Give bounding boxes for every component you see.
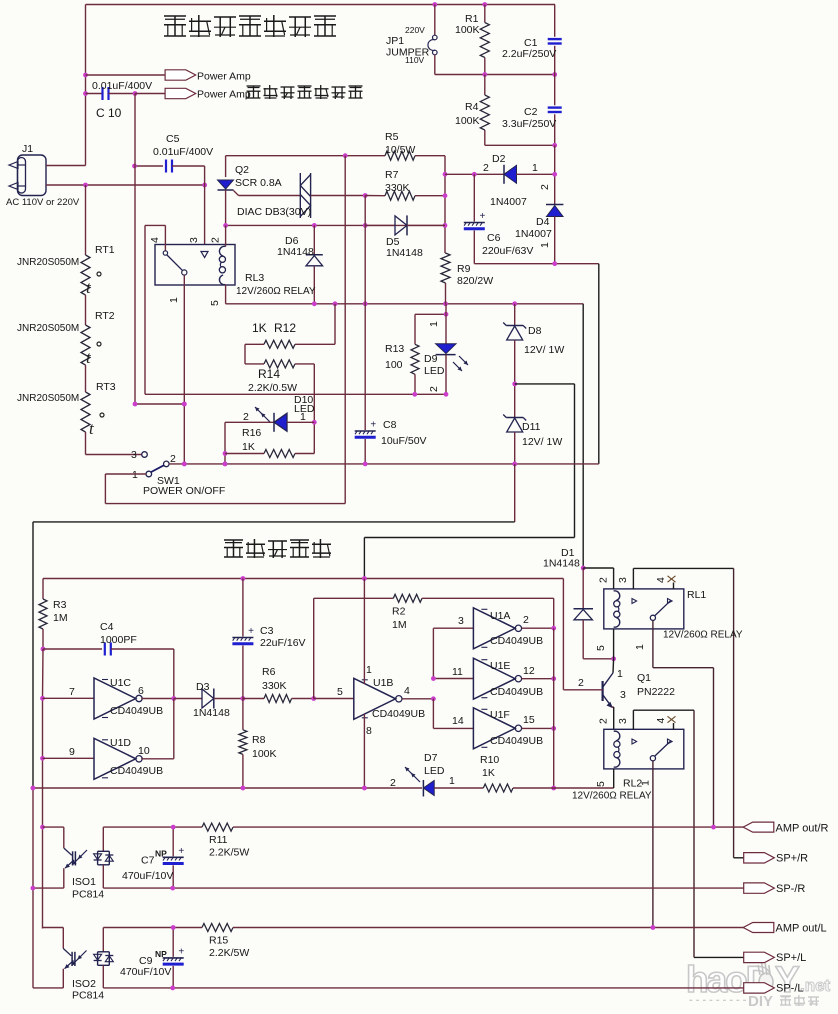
optocoupler ISO1 phototransistor bbox=[64, 827, 87, 888]
svg-text:RT2: RT2 bbox=[95, 310, 115, 322]
svg-text:R3: R3 bbox=[53, 599, 67, 611]
rail y304 bbox=[226, 301, 584, 306]
svg-text:3.3uF/250V: 3.3uF/250V bbox=[502, 118, 556, 130]
rail y788 bbox=[31, 786, 423, 791]
connector Power Amp 1 bbox=[165, 70, 251, 83]
wire SW1 pin2 row bbox=[169, 462, 599, 467]
svg-text:12: 12 bbox=[523, 665, 535, 677]
wire J1 top bbox=[46, 165, 86, 167]
svg-text:330K: 330K bbox=[262, 680, 287, 692]
svg-text:1K: 1K bbox=[252, 321, 267, 335]
svg-text:D7: D7 bbox=[424, 752, 438, 764]
svg-text:RL3: RL3 bbox=[245, 272, 264, 284]
svg-text:C2: C2 bbox=[524, 106, 538, 118]
relay RL3 pin1 wire bbox=[182, 275, 187, 466]
relay RL3 pin2 lead bbox=[210, 225, 226, 246]
SCR Q2 bbox=[218, 156, 282, 226]
svg-text:22uF/16V: 22uF/16V bbox=[260, 637, 306, 649]
svg-text:1: 1 bbox=[539, 242, 551, 248]
wire right column x599 bbox=[598, 264, 600, 464]
connector SP+/L bbox=[694, 952, 806, 964]
wire R7 right bbox=[415, 195, 445, 197]
svg-text:2: 2 bbox=[483, 162, 489, 174]
svg-text:PC814: PC814 bbox=[72, 990, 104, 1002]
svg-text:R14: R14 bbox=[258, 367, 280, 381]
capacitor C8 bbox=[355, 225, 427, 464]
svg-text:3: 3 bbox=[617, 718, 629, 724]
svg-text:U1A: U1A bbox=[490, 610, 510, 622]
svg-text:D2: D2 bbox=[492, 153, 506, 165]
wire D8-D11 to rail bbox=[364, 384, 574, 579]
svg-text:1: 1 bbox=[640, 780, 652, 786]
connector AMP out/L bbox=[743, 923, 826, 935]
relay RL1 contact arm bbox=[650, 601, 670, 621]
capacitor C3 bbox=[232, 579, 305, 699]
svg-text:+: + bbox=[370, 420, 376, 431]
svg-text:JNR20S050M: JNR20S050M bbox=[17, 323, 79, 334]
svg-text:3: 3 bbox=[620, 689, 626, 701]
svg-text:2: 2 bbox=[390, 777, 396, 789]
svg-text:R11: R11 bbox=[209, 834, 228, 846]
svg-text:4: 4 bbox=[149, 237, 161, 243]
svg-text:3: 3 bbox=[617, 577, 629, 583]
svg-text:R15: R15 bbox=[209, 935, 228, 947]
svg-text:+: + bbox=[178, 846, 184, 857]
resistor R5 bbox=[385, 131, 415, 160]
wire C6 bottom row bbox=[474, 261, 599, 266]
relay RL1 box bbox=[604, 589, 684, 629]
relay RL3 contact bbox=[163, 251, 187, 275]
svg-text:9: 9 bbox=[69, 746, 75, 758]
wire to lower section bbox=[33, 464, 515, 522]
wire PowerAmp2 bbox=[135, 93, 166, 95]
svg-text:RT1: RT1 bbox=[95, 244, 115, 256]
svg-text:CD4049UB: CD4049UB bbox=[490, 686, 543, 698]
svg-text:R2: R2 bbox=[392, 606, 406, 618]
wire x345 column bbox=[344, 156, 346, 504]
wire C2 bottom bbox=[552, 145, 557, 176]
svg-text:C6: C6 bbox=[487, 232, 501, 244]
svg-text:2: 2 bbox=[428, 386, 440, 392]
svg-text:RL1: RL1 bbox=[687, 589, 706, 601]
svg-text:1N4148: 1N4148 bbox=[193, 707, 230, 719]
wire DIAC to R7 bbox=[365, 195, 385, 197]
svg-text:D11: D11 bbox=[522, 421, 541, 433]
connector SP-/R bbox=[744, 883, 806, 895]
svg-text:C3: C3 bbox=[260, 625, 274, 637]
svg-text:12V/260Ω RELAY: 12V/260Ω RELAY bbox=[663, 630, 743, 641]
resistor R12 row bbox=[245, 304, 335, 349]
svg-text:1: 1 bbox=[366, 664, 372, 676]
svg-text:PN2222: PN2222 bbox=[637, 686, 675, 698]
svg-text:5: 5 bbox=[595, 781, 607, 787]
svg-text:SP-/R: SP-/R bbox=[776, 883, 805, 895]
svg-text:R13: R13 bbox=[385, 343, 404, 355]
svg-text:0.01uF/400V: 0.01uF/400V bbox=[92, 80, 152, 92]
resistor R13 bbox=[385, 304, 448, 395]
svg-text:1: 1 bbox=[634, 644, 646, 650]
svg-text:220V: 220V bbox=[405, 25, 425, 35]
svg-text:12V/260Ω RELAY: 12V/260Ω RELAY bbox=[572, 791, 652, 802]
wire J1 bottom bbox=[46, 183, 207, 188]
svg-text:1N4148: 1N4148 bbox=[277, 246, 314, 258]
svg-text:LED: LED bbox=[294, 403, 315, 415]
svg-text:1N4148: 1N4148 bbox=[386, 247, 423, 259]
capacitor C5 bbox=[135, 133, 214, 173]
svg-text:D8: D8 bbox=[528, 325, 542, 337]
resistor R8 bbox=[239, 699, 277, 789]
connector J1 bbox=[6, 143, 80, 208]
relay RL2 coil bbox=[614, 731, 620, 767]
relay RL3 labels bbox=[168, 272, 316, 306]
svg-text:1000PF: 1000PF bbox=[100, 634, 137, 646]
wire D5 row bbox=[223, 223, 445, 228]
wire relay pin4 column bbox=[144, 225, 146, 394]
labels ISO2 bbox=[72, 978, 104, 1002]
diode D5 bbox=[365, 215, 445, 259]
wire AMPoutR row bbox=[43, 826, 203, 828]
relay RL3 pin5 wire bbox=[225, 285, 227, 304]
svg-text:2: 2 bbox=[523, 614, 529, 626]
resistor R3 bbox=[39, 579, 68, 652]
svg-text:1N4148: 1N4148 bbox=[543, 558, 580, 570]
svg-text:0.01uF/400V: 0.01uF/400V bbox=[153, 146, 213, 158]
svg-text:U1F: U1F bbox=[490, 709, 510, 721]
svg-text:U1C: U1C bbox=[110, 677, 131, 689]
svg-text:U1E: U1E bbox=[490, 660, 510, 672]
svg-text:4: 4 bbox=[655, 577, 667, 583]
svg-text:5: 5 bbox=[337, 686, 343, 698]
diac DB3 bbox=[237, 173, 311, 218]
zener D8 bbox=[503, 304, 564, 384]
svg-text:2: 2 bbox=[539, 184, 551, 190]
svg-text:RT3: RT3 bbox=[96, 381, 116, 393]
diode D3 bbox=[174, 681, 243, 719]
svg-text:- - - - - - - - -: - - - - - - - - - bbox=[689, 994, 747, 1006]
wire x314 down bbox=[312, 364, 317, 454]
thermistor RT3 bbox=[17, 365, 116, 438]
svg-text:2: 2 bbox=[210, 237, 222, 243]
svg-text:2: 2 bbox=[578, 677, 584, 689]
svg-text:100K: 100K bbox=[455, 24, 480, 36]
connector SP-/L bbox=[744, 983, 804, 995]
wire SCR gate to DIAC bbox=[239, 195, 301, 197]
relay RL1 labels bbox=[595, 589, 743, 651]
svg-text:1N4007: 1N4007 bbox=[490, 196, 527, 208]
resistor R6 bbox=[243, 666, 314, 703]
relay RL2 pin5 bbox=[613, 769, 615, 788]
svg-text:AC 110V or 220V: AC 110V or 220V bbox=[6, 197, 80, 208]
svg-text:D9: D9 bbox=[424, 353, 438, 365]
resistor R15 bbox=[202, 924, 249, 960]
wire RT3 to SW1-3 bbox=[86, 432, 142, 455]
svg-text:12V/ 1W: 12V/ 1W bbox=[522, 436, 562, 448]
svg-text:1: 1 bbox=[428, 321, 440, 327]
wire R3 column bbox=[40, 649, 45, 928]
svg-text:Power Amp: Power Amp bbox=[197, 71, 251, 83]
svg-text:R16: R16 bbox=[242, 427, 261, 439]
switch SW1 bbox=[131, 449, 225, 497]
inverter U1D bbox=[43, 699, 174, 780]
svg-text:CD4049UB: CD4049UB bbox=[490, 635, 543, 647]
relay RL2 contact arm bbox=[650, 741, 670, 761]
rail y578 bbox=[43, 576, 563, 581]
LED D7 bbox=[390, 752, 455, 797]
capacitor C6 bbox=[464, 174, 534, 263]
relay RL1 pin2 bbox=[583, 568, 613, 589]
inverter U1A bbox=[433, 608, 556, 679]
svg-text:POWER ON/OFF: POWER ON/OFF bbox=[143, 485, 225, 497]
svg-text:CD4049UB: CD4049UB bbox=[490, 735, 543, 747]
diode D6 bbox=[277, 225, 323, 303]
svg-text:2.2K/5W: 2.2K/5W bbox=[209, 847, 249, 859]
wire C10 column bbox=[133, 94, 187, 407]
svg-text:5: 5 bbox=[595, 645, 607, 651]
resistor R1 bbox=[455, 5, 489, 75]
diode D4 bbox=[515, 174, 563, 263]
svg-text:100K: 100K bbox=[252, 748, 277, 760]
svg-text:1: 1 bbox=[132, 469, 138, 481]
node D3 out bbox=[241, 696, 246, 701]
svg-text:11: 11 bbox=[452, 666, 463, 678]
inverter U1C bbox=[43, 677, 177, 719]
top rail 2 (y156) bbox=[226, 153, 385, 158]
svg-text:AMP out/L: AMP out/L bbox=[776, 923, 827, 935]
svg-text:2: 2 bbox=[598, 718, 610, 724]
svg-text:+: + bbox=[178, 946, 184, 957]
svg-text:.net: .net bbox=[800, 976, 831, 995]
relay RL1 pin5 bbox=[613, 629, 615, 659]
wire Q1 emitter bbox=[612, 707, 614, 729]
wire PowerAmp1 bbox=[86, 74, 167, 76]
svg-text:SCR 0.8A: SCR 0.8A bbox=[235, 177, 282, 189]
svg-text:SP+/R: SP+/R bbox=[776, 853, 808, 865]
node R6 right bbox=[311, 696, 316, 701]
svg-text:DIAC DB3(30V): DIAC DB3(30V) bbox=[237, 206, 311, 218]
svg-text:R5: R5 bbox=[385, 131, 399, 143]
wire R4 bottom bbox=[485, 143, 557, 148]
svg-text:CD4049UB: CD4049UB bbox=[110, 765, 163, 777]
inverter U1F bbox=[433, 699, 556, 749]
svg-text:R12: R12 bbox=[274, 321, 296, 335]
svg-text:C7: C7 bbox=[141, 855, 155, 867]
relay RL1 pin4 bbox=[655, 576, 676, 604]
svg-text:1: 1 bbox=[168, 297, 180, 303]
svg-text:LED: LED bbox=[424, 365, 445, 377]
svg-text:110V: 110V bbox=[405, 55, 425, 65]
title: power buffer starter (CJK) bbox=[164, 15, 336, 37]
svg-text:3: 3 bbox=[188, 237, 200, 243]
node column x445 bbox=[443, 172, 448, 228]
relay RL1 pin1 wire bbox=[653, 620, 714, 827]
resistor R16 row bbox=[223, 422, 315, 466]
relay RL2 pin1 wire bbox=[652, 761, 654, 928]
svg-text:100: 100 bbox=[385, 359, 403, 371]
svg-text:CD4049UB: CD4049UB bbox=[110, 705, 163, 717]
svg-text:5: 5 bbox=[209, 300, 221, 306]
svg-text:10: 10 bbox=[138, 745, 150, 757]
svg-text:1M: 1M bbox=[53, 612, 68, 624]
zener D11 bbox=[503, 382, 562, 464]
resistor R2 row bbox=[314, 594, 554, 698]
svg-text:Q1: Q1 bbox=[637, 672, 651, 684]
jumper JP1 bbox=[386, 5, 437, 75]
wire U1 outputs column bbox=[551, 628, 556, 790]
svg-text:10/5W: 10/5W bbox=[385, 144, 415, 156]
svg-text:ISO2: ISO2 bbox=[72, 978, 96, 990]
svg-text:100K: 100K bbox=[455, 115, 480, 127]
svg-text:330K: 330K bbox=[385, 182, 410, 194]
wire SP-L row bbox=[33, 986, 744, 991]
inverter U1E bbox=[431, 658, 556, 699]
inverter U1B bbox=[314, 579, 436, 789]
relay RL1 pin3 loop bbox=[617, 568, 734, 857]
connector Power Amp 2 bbox=[165, 88, 251, 100]
svg-text:2: 2 bbox=[598, 577, 610, 583]
wire SP-R row bbox=[31, 886, 744, 891]
relay RL2 pin4 bbox=[655, 716, 676, 744]
svg-text:R6: R6 bbox=[262, 666, 276, 678]
svg-text:C8: C8 bbox=[383, 419, 397, 431]
left border bbox=[32, 522, 34, 988]
resistor R11 bbox=[202, 823, 249, 858]
wire y74 bbox=[435, 72, 557, 77]
svg-text:Power Amp: Power Amp bbox=[197, 89, 251, 101]
svg-text:14: 14 bbox=[452, 715, 464, 727]
resistor R14 row bbox=[245, 344, 314, 394]
svg-text:470uF/10V: 470uF/10V bbox=[122, 870, 173, 882]
svg-text:2: 2 bbox=[243, 411, 249, 423]
labels ISO1 bbox=[72, 876, 104, 901]
connector SP+/R bbox=[734, 853, 809, 865]
svg-text:U1B: U1B bbox=[373, 677, 393, 689]
diode D2 bbox=[445, 153, 555, 208]
svg-text:10uF/50V: 10uF/50V bbox=[381, 435, 427, 447]
svg-text:R10: R10 bbox=[480, 754, 499, 766]
wire SW1 pin1 loop bbox=[105, 474, 345, 504]
relay RL2 pin3 loop bbox=[617, 710, 694, 957]
capacitor C4 bbox=[43, 621, 174, 699]
svg-text:1M: 1M bbox=[392, 619, 407, 631]
relay RL3 pin3 lead contact bbox=[188, 237, 208, 258]
thermistor RT1 bbox=[17, 185, 115, 297]
svg-text:1: 1 bbox=[617, 668, 623, 680]
svg-text:NP: NP bbox=[155, 949, 167, 959]
svg-text:8: 8 bbox=[366, 725, 372, 737]
relay RL3 box bbox=[155, 245, 235, 286]
relay RL3 coil bbox=[219, 246, 225, 284]
svg-text:12V/260Ω RELAY: 12V/260Ω RELAY bbox=[236, 286, 316, 297]
transistor Q1 bbox=[563, 659, 675, 709]
wire C5 to RL3 pin3 bbox=[204, 166, 206, 245]
svg-text:LED: LED bbox=[424, 765, 445, 777]
capacitor C1 bbox=[502, 5, 562, 75]
wire R5 right bbox=[415, 156, 445, 253]
svg-text:SP+/L: SP+/L bbox=[776, 952, 806, 964]
svg-text:NP: NP bbox=[155, 849, 167, 859]
svg-text:D4: D4 bbox=[536, 216, 550, 228]
svg-text:R9: R9 bbox=[457, 263, 471, 275]
relay RL2 pin2 label bbox=[598, 718, 610, 724]
svg-text:J1: J1 bbox=[22, 143, 33, 155]
svg-text:7: 7 bbox=[69, 686, 75, 698]
svg-text:4: 4 bbox=[404, 685, 410, 697]
svg-text:820/2W: 820/2W bbox=[457, 275, 493, 287]
svg-text:R4: R4 bbox=[465, 101, 479, 113]
top rail bbox=[86, 2, 556, 7]
resistor R7 bbox=[385, 169, 415, 200]
svg-text:2.2K/0.5W: 2.2K/0.5W bbox=[248, 382, 297, 394]
svg-text:1K: 1K bbox=[242, 441, 255, 453]
svg-text:U1D: U1D bbox=[110, 737, 131, 749]
svg-text:+: + bbox=[480, 211, 486, 222]
svg-text:1N4007: 1N4007 bbox=[515, 228, 552, 240]
svg-text:2.2uF/250V: 2.2uF/250V bbox=[502, 48, 556, 60]
node C10-right bbox=[133, 91, 138, 96]
svg-text:AMP out/R: AMP out/R bbox=[776, 823, 829, 835]
capacitor C7 bbox=[122, 825, 184, 888]
capacitor C10 bbox=[86, 80, 153, 120]
LED D10 bbox=[225, 394, 315, 432]
svg-text:PC814: PC814 bbox=[72, 889, 104, 901]
optocoupler ISO1 LED pair bbox=[94, 827, 114, 888]
wire left vertical from top rail bbox=[83, 5, 88, 166]
capacitor C2 bbox=[502, 75, 562, 146]
relay RL1 coil bbox=[614, 591, 620, 627]
svg-text:ISO1: ISO1 bbox=[72, 876, 96, 888]
wire x583 column bbox=[582, 304, 584, 568]
resistor R4 bbox=[455, 75, 489, 146]
svg-text:220uF/63V: 220uF/63V bbox=[482, 245, 533, 257]
svg-text:R7: R7 bbox=[385, 169, 399, 181]
title: speaker protector (CJK) bbox=[224, 539, 331, 558]
svg-text:D3: D3 bbox=[196, 681, 210, 693]
svg-text:3: 3 bbox=[458, 615, 464, 627]
svg-text:Q2: Q2 bbox=[235, 164, 249, 176]
svg-text:+: + bbox=[248, 626, 254, 637]
optocoupler ISO2 LED pair bbox=[94, 928, 114, 988]
svg-text:2.2K/5W: 2.2K/5W bbox=[209, 947, 249, 959]
svg-text:R8: R8 bbox=[252, 734, 266, 746]
wire AMPoutR row right bbox=[233, 825, 744, 830]
svg-text:4: 4 bbox=[655, 718, 667, 724]
node C5-left bbox=[132, 164, 137, 169]
thermistor RT2 bbox=[17, 295, 115, 367]
svg-text:470uF/10V: 470uF/10V bbox=[120, 966, 171, 978]
svg-text:JNR20S050M: JNR20S050M bbox=[17, 257, 79, 268]
stub x365 bbox=[364, 196, 366, 226]
svg-text:DIY: DIY bbox=[748, 993, 773, 1010]
label: power transformer primary (CJK) bbox=[247, 85, 363, 99]
svg-text:1K: 1K bbox=[482, 767, 495, 779]
svg-text:SP-/L: SP-/L bbox=[776, 983, 804, 995]
watermark haoDIY.net bbox=[686, 959, 831, 1010]
svg-text:JP1: JP1 bbox=[386, 35, 404, 47]
wire AMPoutL row right bbox=[233, 925, 744, 930]
optocoupler ISO2 phototransistor bbox=[63, 928, 86, 988]
svg-text:1: 1 bbox=[532, 162, 538, 174]
connector AMP out/R bbox=[743, 822, 828, 834]
capacitor C9 bbox=[120, 925, 184, 988]
svg-text:1: 1 bbox=[449, 775, 455, 787]
wire AMPoutL row bbox=[43, 927, 203, 930]
resistor R10 bbox=[434, 754, 614, 792]
svg-text:C4: C4 bbox=[100, 621, 114, 633]
relay RL2 labels bbox=[572, 778, 652, 802]
diode D1 bbox=[543, 547, 616, 661]
svg-text:C5: C5 bbox=[166, 133, 180, 145]
relay RL2 box bbox=[604, 729, 684, 769]
